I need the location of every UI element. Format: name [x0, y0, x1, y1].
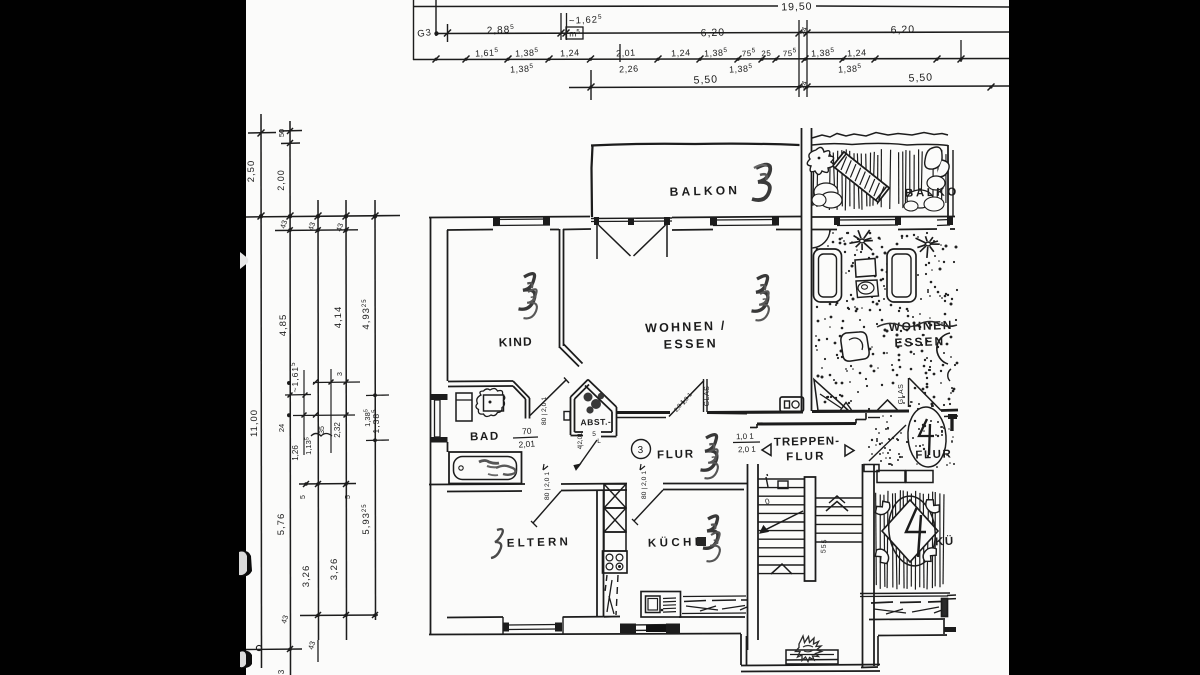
right unit wall after glass door — [941, 410, 958, 431]
svg-text:TREPPEN-: TREPPEN- — [774, 435, 840, 448]
window KIND (top wall) — [493, 218, 550, 226]
wall BAD top with chamfer — [448, 381, 530, 419]
svg-text:6,20: 6,20 — [700, 27, 725, 40]
svg-text:35: 35 — [319, 426, 326, 434]
right unit door triangle from treppenflur — [814, 380, 849, 411]
right balcony sun lounger — [833, 152, 890, 202]
BAD washbasin — [476, 388, 505, 416]
right wohnen plant A — [865, 240, 873, 242]
svg-text:80 | 2,0 1: 80 | 2,0 1 — [544, 472, 551, 500]
svg-text:19,50: 19,50 — [781, 0, 813, 13]
svg-text:~1,615: ~1,615 — [290, 362, 300, 393]
svg-text:4|2,01: 4|2,01 — [578, 432, 584, 449]
door ELTERN swing — [533, 491, 561, 523]
smudge KUECHE plant — [703, 516, 718, 548]
svg-text:80 | 2,0 1: 80 | 2,0 1 — [541, 397, 548, 425]
svg-text:ESSEN: ESSEN — [664, 336, 719, 351]
smudge WOHNEN room — [752, 276, 768, 312]
window BAD (left wall) — [430, 394, 448, 443]
BAD cabinet — [456, 393, 472, 421]
svg-text:1,24: 1,24 — [671, 47, 691, 58]
svg-text:3: 3 — [337, 372, 344, 376]
svg-text:BALKON: BALKON — [669, 183, 740, 199]
right unit south-east walls — [861, 620, 956, 668]
balcony squiggle mark — [752, 165, 770, 200]
svg-text:80 | 2,0 1: 80 | 2,0 1 — [641, 471, 648, 499]
svg-text:FLUR: FLUR — [657, 449, 695, 462]
ABST dark scribble blobs — [584, 393, 605, 414]
wall FLUR south — [429, 484, 747, 492]
punch-hole blob lower-left bar — [240, 651, 252, 669]
svg-text:ABST.-: ABST.- — [580, 417, 611, 428]
right kueche cupboards — [877, 471, 933, 483]
svg-text:5: 5 — [592, 431, 596, 438]
porch bottom wall — [741, 665, 880, 672]
right wohnen plant B — [931, 243, 940, 245]
wall outer top (left part) — [429, 217, 591, 231]
kitchen counter dashed (right) — [682, 596, 747, 614]
svg-text:KIND: KIND — [499, 334, 534, 349]
stair central stringer wall — [805, 477, 816, 581]
door BAD swing — [530, 378, 570, 421]
kitchen counter dashed (shaft side) — [604, 575, 620, 617]
smudge BAD floor — [479, 461, 499, 464]
svg-text:G3: G3 — [417, 27, 433, 40]
svg-text:2,0 1: 2,0 1 — [738, 445, 757, 455]
kitchen sink unit — [641, 592, 681, 618]
wall WOHNEN bottom + glass door — [616, 379, 747, 418]
right balcony boulder cluster — [812, 183, 842, 208]
svg-text:5: 5 — [345, 495, 352, 499]
svg-text:4,14: 4,14 — [333, 306, 344, 329]
stairwell left wall — [748, 464, 759, 650]
svg-text:25: 25 — [761, 49, 771, 59]
svg-text:5,50: 5,50 — [693, 73, 718, 86]
right kueche chair NE — [922, 497, 942, 516]
wall triangles marks — [841, 400, 898, 410]
right wohnen lamp table — [856, 280, 879, 298]
svg-text:2,50: 2,50 — [246, 160, 257, 183]
svg-text:BAD: BAD — [470, 431, 500, 444]
svg-text:WOHNEN /: WOHNEN / — [645, 319, 727, 336]
right kueche chair SW — [873, 546, 892, 566]
stairwell right wall — [863, 464, 875, 667]
right balcony pots bottom — [904, 190, 944, 211]
svg-text:5,76: 5,76 — [276, 513, 287, 536]
right kueche chair NW — [873, 499, 893, 518]
wall divider KIND-WOHNEN with chamfer — [560, 229, 583, 367]
stair treads right flight — [816, 498, 862, 542]
right unit south wall of wohnen — [812, 411, 909, 418]
svg-text:70: 70 — [522, 426, 532, 437]
svg-text:3: 3 — [637, 445, 644, 456]
svg-text:2,01: 2,01 — [616, 47, 636, 58]
right kueche counter with dashes — [860, 593, 956, 620]
party wall between units — [802, 128, 812, 412]
window KUECHE (bottom wall, dark sill) — [620, 624, 680, 634]
right wohnen armchair — [841, 332, 869, 361]
wall divider ELTERN-KUECHE — [597, 491, 604, 617]
right balcony parapet — [812, 133, 953, 217]
svg-text:1,24: 1,24 — [560, 47, 580, 58]
stair chevron up — [826, 502, 848, 512]
right balcony plant right — [925, 147, 949, 190]
smudge KIND room — [519, 274, 535, 310]
svg-text:3,26: 3,26 — [301, 565, 312, 588]
right unit glass door — [908, 378, 910, 407]
punch-hole blob upper-left bar — [239, 551, 252, 577]
svg-text:11,00: 11,00 — [249, 409, 260, 437]
right kueche dining table with 4 — [882, 493, 939, 568]
label 4 FLUR ellipse — [906, 406, 948, 469]
svg-text:5,50: 5,50 — [908, 71, 933, 84]
svg-text:L: L — [597, 438, 601, 445]
stair door nib — [778, 481, 788, 489]
treppenflur north wall — [707, 412, 866, 428]
svg-text:2,00: 2,00 — [276, 169, 286, 191]
stove with burners — [603, 551, 628, 573]
right wohnen square table — [855, 259, 876, 278]
svg-text:1,24: 1,24 — [847, 47, 867, 58]
svg-text:BALKO: BALKO — [905, 186, 959, 199]
stair direction arrow — [761, 511, 803, 532]
svg-text:3,26: 3,26 — [329, 558, 340, 581]
right balcony hatch — [813, 149, 946, 211]
window WOHNEN (top wall) — [710, 218, 779, 226]
svg-text:24: 24 — [277, 424, 286, 432]
stair treads left flight — [758, 479, 804, 574]
window ELTERN (bottom wall) — [503, 617, 563, 635]
top dimension chain block — [413, 0, 1009, 100]
right black margin bar — [1009, 0, 1200, 675]
punch-hole wedge on left bar — [240, 252, 248, 269]
svg-text:~1,625: ~1,625 — [569, 14, 603, 27]
right unit windows north — [834, 217, 953, 226]
svg-text:KÜ: KÜ — [935, 535, 955, 549]
svg-text:1,26: 1,26 — [291, 445, 300, 461]
left dimension chain block — [246, 114, 400, 675]
right wohnen stipple floor — [813, 232, 958, 468]
svg-text:GLAS: GLAS — [704, 386, 711, 407]
chimney shaft with X boxes — [604, 484, 626, 551]
entrance threshold — [786, 650, 838, 664]
balcony walls (main unit) — [591, 144, 800, 217]
right unit balcony door arc — [813, 230, 831, 248]
stair chevron bottom — [771, 564, 792, 574]
balcony french door (main unit) — [591, 217, 672, 259]
svg-text:4,85: 4,85 — [278, 314, 289, 337]
entrance plant scribble — [796, 636, 822, 662]
right kueche hatch floor — [876, 490, 944, 589]
BAD bathtub — [449, 452, 522, 484]
svg-text:1,0 1: 1,0 1 — [736, 432, 755, 442]
svg-text:5: 5 — [300, 495, 307, 499]
svg-text:2,01: 2,01 — [518, 438, 535, 449]
svg-text:50: 50 — [277, 129, 286, 137]
svg-text:FLUR: FLUR — [786, 451, 826, 464]
smudge ELTERN — [491, 529, 503, 558]
right balcony plant top-left — [807, 147, 833, 174]
right unit north wall — [812, 217, 955, 230]
right kueche chair SE — [920, 544, 939, 564]
wall outer left — [431, 217, 448, 634]
wall outer bottom — [429, 617, 747, 666]
smudge FLUR — [701, 435, 717, 471]
smudge bath tub — [496, 466, 515, 475]
room ABST walls — [571, 380, 617, 437]
right wohnen sofa right — [887, 249, 916, 302]
svg-text:555: 555 — [820, 538, 828, 553]
intercom box on wall — [780, 397, 804, 412]
svg-text:GLAS: GLAS — [898, 384, 905, 405]
ABST door swing — [578, 440, 597, 467]
svg-text:3: 3 — [277, 669, 286, 674]
right wall top box — [864, 465, 879, 472]
left black margin bar — [0, 0, 246, 675]
label FLUR with circle 3 — [632, 440, 651, 459]
right wohnen round table arc — [937, 333, 950, 364]
wall outer top (right part) — [672, 217, 801, 231]
right unit flur door swing — [869, 425, 906, 461]
svg-text:2,32: 2,32 — [333, 422, 342, 438]
svg-text:2,26: 2,26 — [619, 63, 639, 74]
door KUECHE swing — [634, 490, 663, 521]
svg-text:ELTERN: ELTERN — [507, 536, 572, 550]
svg-text:6,20: 6,20 — [890, 24, 915, 37]
right wohnen sofa left — [814, 249, 842, 302]
